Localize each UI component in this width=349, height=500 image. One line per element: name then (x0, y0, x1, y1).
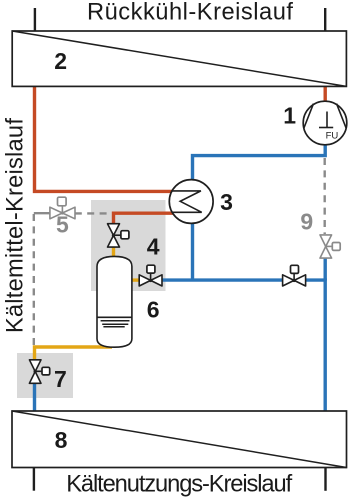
wire red: HX3 to valve 4 (114, 213, 178, 224)
shaded zone around valve 7 (17, 353, 73, 398)
port tick top-left of HX2 (34, 8, 36, 31)
wire gray: stub to valve 5 (34, 212, 50, 214)
valve 9 (gray vertical valve) (320, 235, 340, 258)
wire blue: motor valve to valve mid line (162, 278, 283, 281)
port tick bottom-right of HX8 (324, 468, 326, 491)
svg-text:9: 9 (300, 208, 313, 234)
motor valve on chilled line (283, 265, 306, 286)
motor valve at tank outlet (139, 265, 162, 286)
wire gray dashed: valve 5 down leg (33, 214, 35, 346)
svg-text:Kältenutzungs-Kreislauf: Kältenutzungs-Kreislauf (66, 472, 292, 498)
heat exchanger 8 (body) (12, 411, 347, 468)
svg-text:4: 4 (147, 234, 160, 260)
tank 6 (storage vessel) (97, 256, 132, 347)
svg-text:Kältemittel-Kreislauf: Kältemittel-Kreislauf (2, 118, 28, 333)
svg-text:FU: FU (326, 131, 339, 142)
wire red: HX2 to HX3 (left riser + horizontal) (35, 86, 178, 191)
wire blue: valve to right riser down to HX8 (306, 280, 326, 411)
port tick bottom-left of HX8 (33, 468, 35, 491)
pump 1 with frequency converter (303, 101, 347, 145)
wire blue: HX3 down to main line (191, 223, 194, 280)
svg-text:5: 5 (56, 211, 69, 237)
wire blue: valve 7 to HX8 (33, 383, 36, 411)
wire blue: pump 1 to HX3 (193, 145, 326, 181)
svg-text:2: 2 (54, 48, 67, 74)
wire red: HX2 to pump 1 (324, 86, 327, 102)
svg-text:Rückkühl-Kreislauf: Rückkühl-Kreislauf (87, 0, 293, 26)
wire blue: valve 9 down to junction (324, 258, 327, 281)
svg-text:6: 6 (147, 296, 160, 322)
shaded zone around valve 4 / tank top (91, 200, 166, 291)
heat exchanger 2 (body) (12, 31, 346, 86)
wire gray dashed: valve 5 to red corner (75, 212, 111, 214)
wire gray dashed: pump line to valve 9 (324, 158, 326, 234)
wire yellow: tank 6 to motor valve (131, 278, 141, 281)
svg-text:7: 7 (54, 366, 67, 392)
heat exchanger 3 (plate) (169, 180, 213, 224)
valve 4 (vertical control valve) (108, 224, 129, 247)
wire yellow: valve 4 to tank 6 (112, 247, 115, 260)
svg-text:3: 3 (220, 189, 233, 215)
port tick top-right of HX2 (324, 8, 326, 31)
valve 7 (vertical valve) (29, 360, 49, 384)
wire yellow: tank 6 bottom to valve 7 (35, 347, 113, 361)
valve 5 (gray horizontal valve) (50, 197, 75, 219)
svg-text:1: 1 (283, 103, 296, 129)
svg-text:8: 8 (55, 427, 68, 453)
